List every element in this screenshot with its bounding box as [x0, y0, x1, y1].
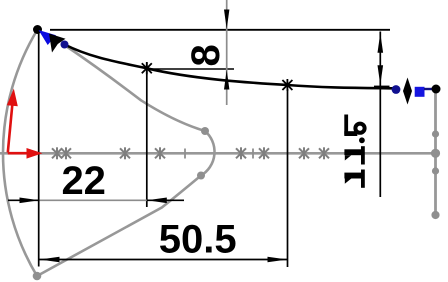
dimension 22 right arrow+shaft (outside, pointing left) — [147, 198, 184, 204]
dimension 22 dimension line gray middle y=200.3 — [40, 199, 147, 201]
right construction segment (vertical gray) — [434, 93, 437, 215]
dimension text 11.5 decimal point — [359, 137, 365, 143]
dimension 8 arrow bottom (outside, pointing up) — [224, 70, 229, 90]
dimension 11.5 bottom extension line y=86.4 — [374, 85, 390, 87]
dimension text 8 (rotated) — [184, 44, 228, 66]
gray endpoint dot upper fillet — [201, 127, 209, 135]
centerline (horizontal construction axis) — [0, 152, 437, 155]
dimension 8 arrow top (outside, pointing down) — [224, 10, 229, 30]
dimension text 22 — [61, 159, 106, 203]
dimension 50.5 dimension line y=260.4 (arrows inside) — [40, 257, 288, 263]
construction profile line B (bottom edge, gray) — [37, 176, 201, 277]
dimension 22 extension line x=146.8 (from spline point down) — [146, 62, 148, 207]
spline end magnitude handle (black diamond) — [403, 78, 412, 105]
dimension 8 bottom extension line y=69 — [152, 68, 234, 70]
spline end handle shaft (navy line) — [424, 88, 434, 90]
svg-text:8: 8 — [184, 44, 228, 66]
dimension text 11.5 digit 1 (second) — [361, 146, 365, 164]
dimension 22 extension line x=38.7 (from point 37.5,29.5 down) — [38, 34, 40, 267]
spline end handle square (blue) — [415, 87, 425, 97]
spline start reference dot (black, 37.5,29.5) — [33, 25, 42, 34]
spline end handle dot (black) — [432, 85, 441, 94]
dimension 11.5 dimension line x=380.3 (arrows inside) — [378, 32, 384, 198]
centerline spline-point marker x=160 — [155, 147, 165, 159]
sketch spline (black, active) — [65, 45, 395, 89]
construction profile line A (top edge, gray) — [65, 45, 206, 131]
gray dot right line 2 (axis crossing) — [431, 149, 440, 158]
dimension text 11.5 digit 1 (bottom) — [361, 170, 365, 188]
centerline tick x=185 — [184, 149, 186, 159]
centerline spline-point marker x=324 — [319, 147, 329, 159]
centerline spline-point marker x=264 — [259, 147, 269, 159]
centerline spline-point marker x=125 — [120, 147, 130, 159]
spline end point dot (navy) — [392, 85, 401, 94]
spline interior point marker (287.4,85) — [282, 79, 292, 91]
dimension text 11.5 digit 5 (top) — [344, 115, 348, 135]
dimension text 50.5 — [159, 217, 237, 261]
gray dot right line 3 — [432, 167, 439, 174]
gray endpoint dot lower fillet — [197, 172, 205, 180]
dimension 8 top extension line y=29.5 — [50, 29, 390, 31]
centerline spline-point marker x=304 — [299, 147, 309, 159]
dimension 8 dimension line (vertical gray at x=226.7) — [226, 0, 228, 105]
spline start handle arrowhead (black dart) — [49, 34, 66, 53]
origin vertical axis arrow (red, slightly tilted) — [7, 89, 18, 153]
spline start point dot (navy) — [61, 41, 69, 49]
gray endpoint dot bottom — [33, 272, 42, 281]
centerline spline-point marker x=64.5 — [61, 147, 71, 159]
dimension 50.5 extension line x=287.5 — [287, 89, 289, 267]
gray dot right line bottom — [431, 211, 439, 219]
centerline spline-point marker x=57 — [52, 147, 62, 159]
construction profile fillet (right vertex, gray) — [201, 131, 215, 176]
origin horizontal axis arrow (red) — [8, 148, 43, 159]
centerline tick x=253 — [252, 149, 254, 159]
construction arc (left edge, gray) — [3, 30, 37, 277]
spline start tangency handle arrow (blue) — [39, 30, 57, 45]
gray dot right line 1 — [432, 130, 439, 137]
spline interior point marker (146.8,68.3) — [142, 62, 152, 74]
dimension text 11.5 (rotated) — [344, 115, 365, 188]
svg-text:22: 22 — [61, 159, 106, 203]
dimension 22 left arrow+shaft (outside, pointing right) — [8, 198, 39, 204]
svg-text:50.5: 50.5 — [159, 217, 237, 261]
centerline spline-point marker x=241 — [236, 147, 246, 159]
